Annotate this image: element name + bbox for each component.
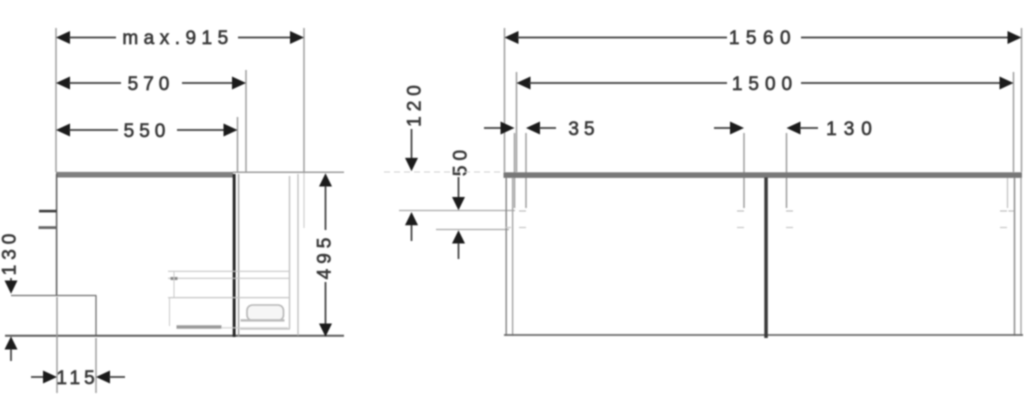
cabinet right inner edge [1014, 178, 1016, 337]
reference line B (50 lower) [436, 229, 509, 231]
svg-text:max.915: max.915 [122, 28, 233, 49]
dimension 495 (vertical right) [315, 173, 336, 337]
dimension 1500 [517, 74, 1014, 95]
basin profile right vertical outer [297, 174, 299, 336]
svg-text:1500: 1500 [732, 74, 798, 95]
extension line left x504.5 (1560) [504, 28, 506, 172]
svg-text:495: 495 [315, 233, 336, 280]
siphon body [247, 305, 284, 321]
hidden dash marks upper level [519, 178, 1014, 211]
extension line x786.5 (130 right) [786, 133, 788, 208]
inner bottom line [240, 328, 290, 330]
svg-text:35: 35 [568, 119, 599, 140]
drawer bottom dark bar [177, 325, 222, 328]
extension line x237.5 (550) [237, 117, 239, 172]
thin top line to right [233, 171, 344, 173]
svg-text:570: 570 [128, 74, 175, 95]
dimension 570 [56, 74, 246, 95]
internal drawer line 3 [168, 297, 290, 299]
extension line left x56 [55, 28, 57, 172]
cabinet right outer edge [1020, 178, 1022, 337]
siphon base bar [241, 319, 285, 321]
dimension 1560 [505, 28, 1022, 49]
console top plate (thick) [56, 172, 233, 178]
internal left vertical [173, 271, 175, 298]
mounting tick upper [39, 210, 57, 213]
dimension max.915 [56, 28, 304, 49]
svg-text:130: 130 [826, 119, 879, 140]
reference line A (120 lower) [399, 210, 515, 212]
extension line x526 (35 right) [525, 133, 527, 208]
dimension 550 [56, 121, 238, 142]
back panel (dark) [233, 174, 236, 337]
dimension 35 [484, 119, 600, 140]
extension line x1013.5 (1500) [1013, 72, 1015, 172]
internal dark tick [171, 277, 178, 280]
hidden dash marks lower level [505, 227, 1007, 229]
recess vertical [95, 296, 97, 337]
extension line x516.5 (1500) [516, 72, 518, 172]
cabinet front edge [56, 174, 58, 296]
mounting tick lower [39, 226, 57, 229]
extension line x744 (130 left) [743, 133, 745, 208]
internal drawer line 1 [168, 270, 290, 272]
console top extension dash (left) [384, 171, 503, 173]
115 extension line left [56, 297, 58, 393]
dimension 120 (rotated, left of front view) [405, 80, 426, 241]
cabinet bottom line [5, 335, 344, 337]
cabinet left outer edge [505, 178, 507, 337]
cabinet bottom front [504, 334, 1023, 336]
internal drawer left edge [169, 297, 171, 326]
extension line x514.5 (35 left) [514, 133, 516, 208]
middle divider [764, 178, 768, 339]
internal drawer line 2 [168, 277, 290, 279]
cabinet left inner edge [512, 178, 514, 337]
extension line right x303 (max.915) [303, 28, 305, 172]
dimension 130 [714, 119, 879, 140]
svg-text:50: 50 [451, 145, 472, 176]
basin profile right vertical inner [289, 176, 291, 329]
svg-text:115: 115 [56, 368, 98, 389]
recess horizontal line (with left extension) [11, 295, 97, 297]
inner back line [238, 174, 240, 337]
extension faint continuation below top [303, 172, 305, 228]
dimension 115 [31, 368, 125, 389]
extension line right x1021.5 (1560) [1021, 28, 1023, 172]
dimension 50 (rotated) [451, 145, 472, 259]
console top plate front (thick) [504, 172, 1023, 178]
svg-text:120: 120 [405, 80, 426, 127]
extension line x246 (570) [245, 70, 247, 172]
115 extension line right [95, 338, 97, 393]
svg-text:130: 130 [0, 229, 21, 276]
svg-text:550: 550 [124, 121, 171, 142]
svg-text:1560: 1560 [729, 28, 797, 49]
drawer bottom light continuation [221, 327, 288, 329]
dimension 130 (left vertical) [0, 229, 21, 361]
